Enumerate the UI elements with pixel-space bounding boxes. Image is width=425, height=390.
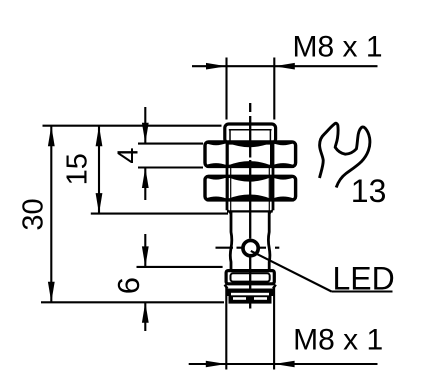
svg-text:6: 6 (111, 277, 146, 294)
svg-text:4: 4 (112, 147, 144, 163)
svg-text:M8 x 1: M8 x 1 (293, 324, 383, 357)
svg-text:15: 15 (62, 153, 94, 185)
svg-text:LED: LED (333, 260, 395, 296)
svg-text:13: 13 (351, 173, 387, 209)
svg-text:M8 x 1: M8 x 1 (293, 31, 383, 64)
svg-text:30: 30 (18, 198, 50, 230)
